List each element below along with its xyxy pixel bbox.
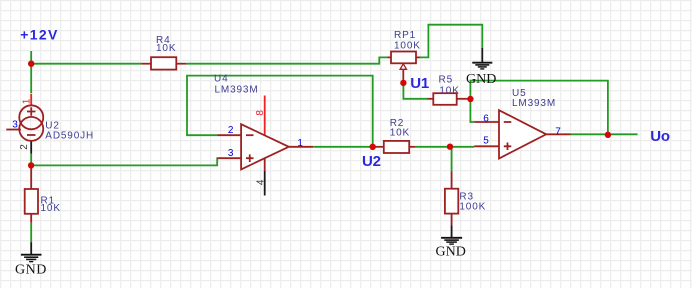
svg-text:R5: R5: [439, 74, 453, 85]
svg-text:2: 2: [19, 144, 30, 150]
svg-text:RP1: RP1: [394, 30, 416, 41]
svg-text:7: 7: [555, 126, 561, 137]
svg-text:U1: U1: [410, 75, 429, 92]
svg-text:LM393M: LM393M: [512, 98, 556, 109]
svg-text:2: 2: [228, 125, 234, 136]
svg-text:10K: 10K: [390, 128, 410, 139]
svg-text:GND: GND: [466, 72, 496, 87]
svg-text:10K: 10K: [41, 203, 61, 214]
svg-text:100K: 100K: [459, 202, 486, 213]
svg-text:1: 1: [22, 98, 33, 104]
svg-text:+12V: +12V: [20, 27, 58, 43]
svg-text:Uo: Uo: [650, 128, 670, 145]
svg-text:U4: U4: [214, 74, 228, 85]
svg-text:GND: GND: [15, 263, 47, 278]
svg-text:8: 8: [255, 110, 266, 116]
svg-text:10K: 10K: [156, 43, 176, 54]
svg-text:U2: U2: [362, 153, 381, 170]
svg-text:100K: 100K: [394, 41, 421, 52]
svg-text:10K: 10K: [439, 85, 459, 96]
svg-text:4: 4: [255, 179, 266, 185]
svg-text:GND: GND: [436, 245, 466, 260]
svg-text:AD590JH: AD590JH: [45, 130, 94, 141]
svg-text:5: 5: [483, 135, 489, 146]
svg-text:LM393M: LM393M: [215, 85, 259, 96]
svg-text:6: 6: [483, 113, 489, 124]
svg-text:3: 3: [228, 148, 234, 159]
svg-text:3: 3: [12, 120, 18, 131]
svg-text:1: 1: [297, 138, 303, 149]
